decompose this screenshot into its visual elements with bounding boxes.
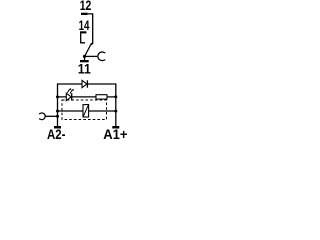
svg-text:12: 12 bbox=[80, 0, 92, 13]
relay coil K1 bbox=[83, 105, 89, 117]
plug-in connector socket (contact side) bbox=[98, 52, 105, 61]
wire node to terminal 11 bbox=[84, 56, 86, 60]
node: right rail / coil branch bbox=[114, 110, 117, 113]
svg-text:A2-: A2- bbox=[47, 127, 65, 140]
svg-text:11: 11 bbox=[78, 61, 91, 76]
terminal bar A1 bbox=[112, 126, 119, 129]
node: contact common junction bbox=[83, 55, 86, 58]
terminal bar 11 bbox=[80, 60, 89, 62]
plug-in connector socket (coil side) bbox=[39, 113, 45, 120]
dashed relay enclosure bbox=[62, 100, 107, 120]
node: right rail / indicator branch bbox=[114, 95, 117, 98]
node: left rail / coil branch bbox=[56, 110, 59, 113]
wire: coil circuit outer loop top (freewheel branch) bbox=[58, 84, 116, 126]
wire from 12 to NC contact bbox=[87, 14, 93, 44]
wire: coil branch bbox=[58, 110, 116, 112]
LED V2 bbox=[66, 93, 71, 100]
svg-text:14: 14 bbox=[79, 18, 90, 33]
NC contact seat hook bbox=[91, 43, 93, 45]
wire to plug connector (coil side) bbox=[45, 115, 57, 117]
node: left rail / indicator branch bbox=[56, 95, 59, 98]
wire: indicator branch bbox=[58, 96, 116, 98]
terminal bar A2 bbox=[54, 126, 61, 129]
svg-text:A1+: A1+ bbox=[103, 127, 127, 140]
wire from 14 to NO contact bbox=[81, 33, 85, 42]
terminal bar 12 bbox=[81, 13, 87, 15]
contact arm K1 bbox=[85, 43, 92, 57]
diode V1 (freewheeling) bbox=[82, 80, 87, 87]
resistor R1 bbox=[96, 95, 107, 99]
wire node to plug contact bbox=[85, 55, 98, 57]
node: left rail / plug wire bbox=[56, 115, 59, 118]
terminal bar 14 bbox=[80, 31, 86, 33]
